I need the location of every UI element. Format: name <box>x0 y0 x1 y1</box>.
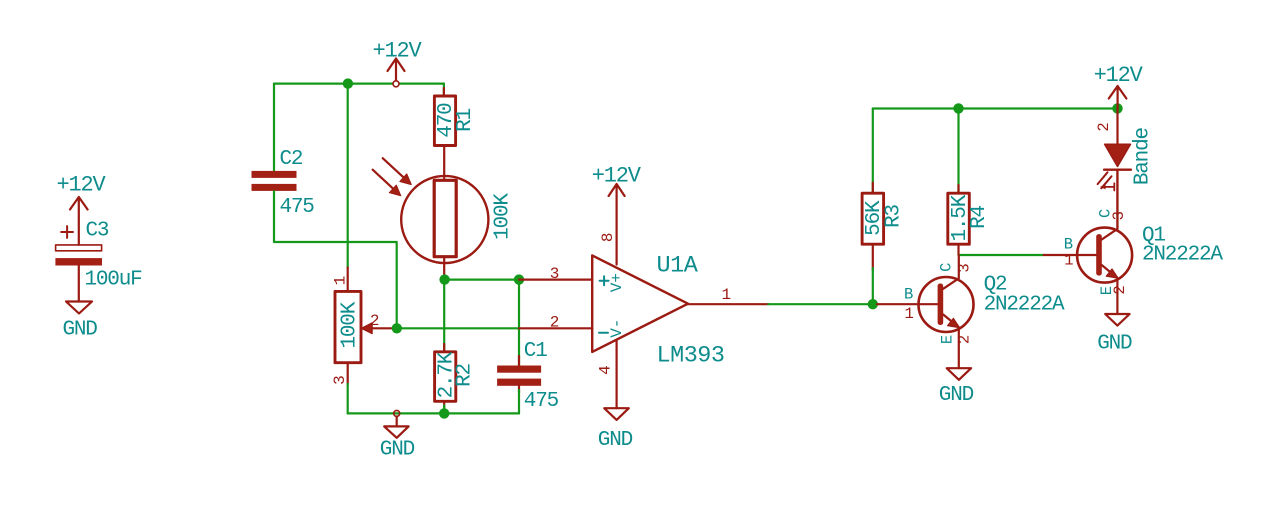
svg-text:3: 3 <box>331 375 349 385</box>
potentiometer RV 100K <box>331 268 397 385</box>
junction at R2 bottom <box>439 408 449 418</box>
svg-text:GND: GND <box>63 319 98 342</box>
svg-text:2N2222A: 2N2222A <box>984 294 1065 317</box>
wire bottom net <box>348 412 519 414</box>
wire Q2 collector to Q1 base <box>959 254 1044 256</box>
junction rail LED column <box>1112 103 1122 113</box>
svg-text:4: 4 <box>597 365 615 375</box>
op-amp pin 8 V+ power <box>592 164 642 265</box>
svg-text:LM393: LM393 <box>657 343 725 370</box>
svg-text:C2: C2 <box>280 148 303 171</box>
svg-text:C3: C3 <box>86 220 109 243</box>
svg-text:U1A: U1A <box>657 253 699 280</box>
wire R4 top from rail <box>957 109 959 194</box>
svg-text:2: 2 <box>956 335 974 344</box>
svg-text:R3: R3 <box>883 205 906 228</box>
op-amp output pin 1 <box>688 286 768 304</box>
svg-text:C1: C1 <box>524 340 547 363</box>
ground symbol at Q2 <box>939 368 974 407</box>
wire R1 to photoresistor <box>443 146 445 181</box>
svg-text:475: 475 <box>280 196 315 219</box>
ground symbol at C3 <box>63 302 98 342</box>
svg-text:R1: R1 <box>454 109 477 132</box>
wire +12V top rail <box>274 82 444 84</box>
svg-text:3: 3 <box>550 265 560 283</box>
svg-text:1: 1 <box>722 286 732 304</box>
capacitor C3 (polarized 100uF) <box>55 220 142 302</box>
svg-text:100K: 100K <box>339 301 362 348</box>
op-amp U1A LM393 <box>592 253 724 370</box>
svg-text:V-: V- <box>608 319 626 338</box>
wire R3 bottom to output net <box>872 268 874 304</box>
junction at R3 bottom <box>868 299 878 309</box>
svg-text:B: B <box>904 286 913 304</box>
junction rail R4 <box>953 103 963 113</box>
svg-text:2: 2 <box>550 314 560 332</box>
wire inverting input net <box>397 327 519 329</box>
wire +12V right rail <box>873 107 1118 109</box>
svg-text:+12V: +12V <box>57 173 107 198</box>
capacitor C1 475 <box>497 280 559 414</box>
wire noninverting input net <box>444 279 519 281</box>
svg-text:+12V: +12V <box>592 164 642 189</box>
svg-text:R2: R2 <box>454 364 477 387</box>
svg-text:V+: V+ <box>608 273 626 292</box>
LED D1 Bande <box>1095 109 1155 229</box>
photoresistor LDR 100K <box>373 158 515 263</box>
svg-text:E: E <box>939 335 957 344</box>
svg-text:GND: GND <box>1097 333 1132 356</box>
svg-text:GND: GND <box>939 384 974 407</box>
wire output to Q2 base <box>768 303 877 305</box>
svg-text:1: 1 <box>1064 251 1073 269</box>
resistor R1 470 <box>434 84 476 146</box>
resistor R2 2.7K <box>435 280 477 414</box>
junction on top rail <box>343 78 353 88</box>
svg-text:R4: R4 <box>968 206 991 229</box>
svg-text:2N2222A: 2N2222A <box>1142 244 1223 267</box>
op-amp pin 3 noninverting <box>519 265 626 292</box>
transistor Q1 2N2222A <box>1044 170 1224 314</box>
capacitor C2 (475) <box>252 148 315 219</box>
junction at C1 top node <box>514 274 524 284</box>
svg-text:1: 1 <box>905 305 914 323</box>
wire R3 top from rail <box>872 109 874 194</box>
wire pot pin1 from rail <box>347 84 349 268</box>
svg-text:+12V: +12V <box>1094 63 1144 88</box>
op-amp pin 4 V- to ground <box>597 341 617 409</box>
op-amp pin 2 inverting <box>519 314 626 338</box>
junction at LDR/R2 node <box>439 274 449 284</box>
svg-text:8: 8 <box>599 232 617 242</box>
ground symbol at op-amp <box>598 408 633 452</box>
svg-text:+12V: +12V <box>373 39 423 64</box>
wire pot pin3 down <box>347 384 349 413</box>
svg-text:100K: 100K <box>492 193 515 240</box>
svg-text:GND: GND <box>380 438 415 461</box>
resistor R3 56K <box>862 183 905 270</box>
resistor R4 1.5K <box>948 185 991 255</box>
svg-text:100uF: 100uF <box>85 269 143 292</box>
power +12V symbol mid <box>373 39 423 87</box>
junction at pot wiper <box>392 323 402 333</box>
svg-text:1: 1 <box>332 276 350 286</box>
svg-text:3: 3 <box>955 263 973 272</box>
svg-text:Bande: Bande <box>1131 127 1154 185</box>
ground symbol below pot <box>380 410 415 461</box>
svg-text:C: C <box>938 263 956 272</box>
power +12V symbol at C3 <box>57 173 107 245</box>
svg-text:2: 2 <box>1095 122 1113 131</box>
svg-text:2: 2 <box>370 312 380 330</box>
svg-text:475: 475 <box>524 390 559 413</box>
power +12V symbol right <box>1094 63 1144 109</box>
svg-text:GND: GND <box>598 429 633 452</box>
ground symbol at Q1 <box>1097 314 1132 356</box>
wire C2 top to +12V rail <box>273 84 275 171</box>
wire LDR bottom <box>443 257 445 280</box>
wire C2 bottom to pot wiper column <box>274 191 397 328</box>
svg-text:3: 3 <box>1110 211 1128 220</box>
transistor Q2 2N2222A <box>877 255 1065 368</box>
svg-text:2: 2 <box>1111 285 1129 294</box>
